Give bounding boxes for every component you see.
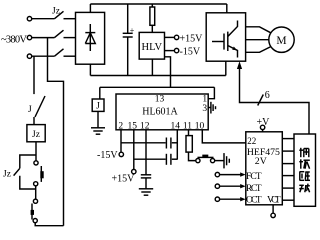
bus line 2 <box>282 150 294 152</box>
svg-text:-15V: -15V <box>180 46 201 57</box>
wire junction to start button <box>35 155 37 161</box>
wire DC plus rail <box>90 4 226 13</box>
terminal VCT <box>271 205 275 218</box>
wire J coil to ground <box>97 111 99 127</box>
terminal -15V out <box>97 150 124 161</box>
svg-text:VCT: VCT <box>267 195 281 205</box>
input OCT <box>215 197 245 201</box>
wire phase B branch <box>48 38 64 226</box>
wire HLV aux output <box>165 57 171 88</box>
wire pin 11 <box>188 130 190 136</box>
svg-text:J: J <box>96 102 100 112</box>
wire phase C <box>32 55 55 57</box>
wire rectifier minus output <box>89 64 91 75</box>
wire bias net <box>100 87 215 99</box>
IC HL601A <box>116 94 208 130</box>
svg-text:6: 6 <box>265 90 270 101</box>
relay Jz coil <box>27 125 45 142</box>
gate drive label glyph 3 <box>300 172 311 181</box>
wire phase A <box>32 18 55 20</box>
motor M <box>269 27 294 52</box>
relay J coil <box>92 99 104 112</box>
terminal +V <box>257 117 271 132</box>
svg-text:-15V: -15V <box>97 150 118 161</box>
svg-text:J: J <box>28 105 32 115</box>
svg-text:HLV: HLV <box>141 42 162 53</box>
terminal phase B <box>27 35 31 39</box>
input FCT <box>215 172 245 176</box>
resistor R <box>186 136 192 153</box>
bus line 5 <box>282 187 294 189</box>
bus line 3 <box>282 163 294 165</box>
terminal -15V <box>165 46 201 57</box>
gate drive label glyph 2 <box>299 159 310 168</box>
wire rectifier plus output <box>89 4 91 12</box>
svg-text:2V: 2V <box>255 156 267 167</box>
svg-text:14: 14 <box>171 121 181 131</box>
power supply HLV <box>139 32 164 59</box>
wire Jz coil down <box>35 142 37 155</box>
resistor dropping <box>150 4 155 32</box>
bus line 1 <box>282 138 294 140</box>
svg-text:10: 10 <box>195 121 205 131</box>
terminal +15V <box>165 33 204 44</box>
wire gate bus arrow <box>237 61 309 134</box>
svg-text:22: 22 <box>247 136 256 146</box>
capacitor A <box>166 138 177 149</box>
chassis ground right <box>224 153 229 168</box>
gate drive block <box>294 134 316 206</box>
wire phase B <box>32 37 55 39</box>
gate drive label glyph 4 <box>299 184 310 193</box>
svg-text:~380V: ~380V <box>1 35 27 46</box>
pushbutton stop <box>31 199 38 223</box>
svg-text:Jz: Jz <box>32 130 40 140</box>
svg-text:+V: +V <box>257 117 271 128</box>
gate drive label glyph 1 <box>299 148 309 157</box>
wire pin 14 <box>176 130 178 160</box>
bus line 4 <box>282 175 294 177</box>
capacitor B <box>166 154 177 165</box>
wire inverter to motor V <box>246 39 269 41</box>
wire phase C branch <box>33 56 35 94</box>
wire Jz contact branch <box>20 155 36 168</box>
wire pin 15 <box>133 130 135 170</box>
IGBT <box>212 21 238 58</box>
input RCT <box>215 184 245 188</box>
svg-text:FCT: FCT <box>246 172 262 182</box>
bus line 6 <box>282 199 294 201</box>
contact Jz holding <box>14 168 36 189</box>
svg-text:Jz: Jz <box>52 7 60 17</box>
diode <box>85 24 95 51</box>
controller HEF4752V <box>246 132 282 205</box>
wire HLV to minus rail <box>151 59 153 75</box>
rectifier bridge <box>76 12 105 64</box>
svg-text:RCT: RCT <box>246 184 262 194</box>
wire start to stop <box>35 186 37 199</box>
contact Jz phase C <box>55 49 76 56</box>
svg-text:15: 15 <box>128 121 138 131</box>
svg-text:+15V: +15V <box>112 173 136 184</box>
wire pin 10 to controller <box>202 130 246 143</box>
terminal phase A <box>27 17 31 21</box>
wire resistor to button <box>189 152 196 161</box>
wire cap net lower <box>134 158 166 160</box>
inverter block <box>206 13 245 61</box>
svg-text:+: + <box>130 26 135 35</box>
svg-text:M: M <box>276 35 286 47</box>
capacitor C <box>141 175 151 189</box>
svg-text:11: 11 <box>183 121 192 131</box>
svg-text:OCT: OCT <box>246 195 262 205</box>
contact Jz phase A <box>55 11 76 18</box>
svg-text:13: 13 <box>155 95 165 105</box>
svg-text:1: 1 <box>202 95 207 105</box>
wire inverter to motor U <box>246 27 271 33</box>
wire cap net upper <box>121 142 166 144</box>
wire pin 2 <box>120 130 122 152</box>
wire pin 12 <box>145 130 147 175</box>
wire DC minus rail <box>90 61 225 75</box>
terminal phase C <box>27 54 31 58</box>
terminal +15V out <box>112 169 137 184</box>
bus slash 6 <box>258 90 270 106</box>
wire control return <box>35 223 63 226</box>
svg-text:HL601A: HL601A <box>142 107 178 118</box>
pushbutton start <box>34 161 44 186</box>
contact Jz phase B <box>55 30 76 37</box>
ground below capacitor C <box>139 189 153 195</box>
capacitor DC link <box>123 4 135 76</box>
svg-text:Jz: Jz <box>3 169 11 179</box>
wire button to chassis ground <box>215 160 224 162</box>
pin 3 chassis ground <box>208 102 215 114</box>
ground <box>91 128 105 134</box>
wire inverter to motor W <box>246 47 271 53</box>
svg-text:+15V: +15V <box>180 33 204 44</box>
switch J <box>34 96 45 125</box>
svg-text:3: 3 <box>202 104 207 114</box>
svg-text:12: 12 <box>140 121 150 131</box>
pushbutton horizontal <box>196 155 215 163</box>
